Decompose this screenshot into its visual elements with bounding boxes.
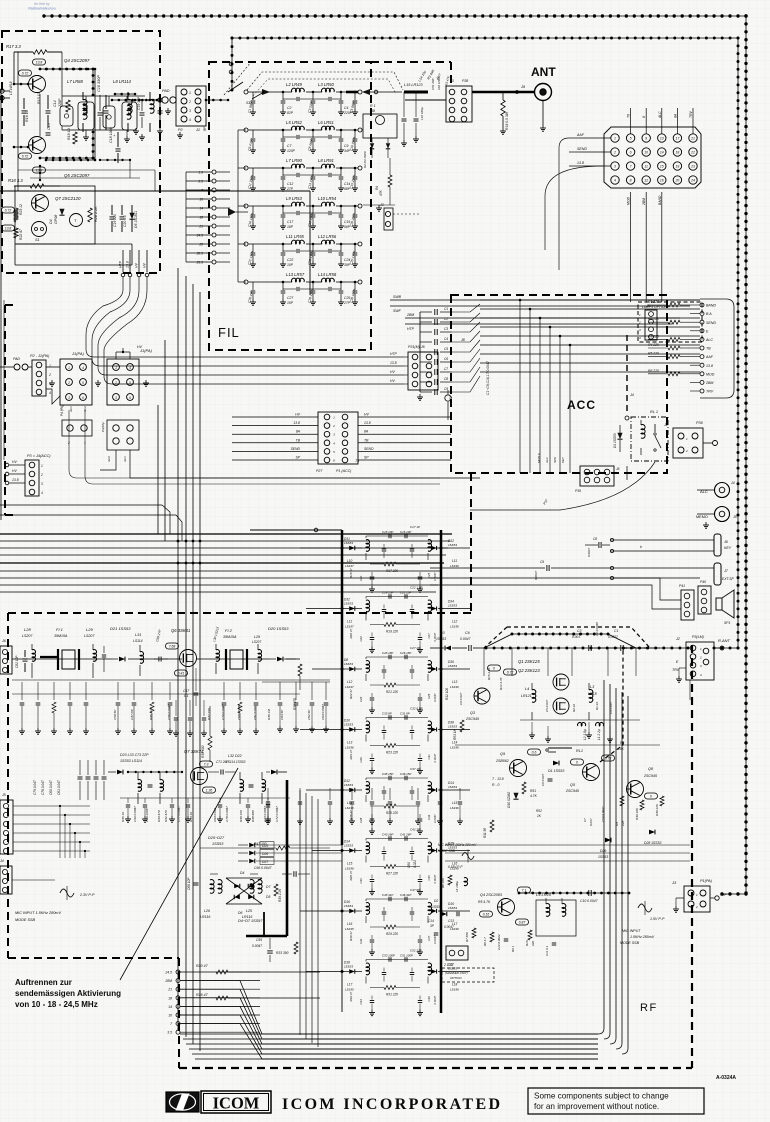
IF filter row 6 (L20 LS195): [349, 848, 355, 852]
svg-text:5: 5: [82, 381, 84, 385]
bead segment to output circle: [135, 99, 157, 101]
FI2 crystal filter block: [230, 650, 243, 669]
svg-text:C77 0.0047: C77 0.0047: [177, 806, 181, 822]
svg-text:0.0047: 0.0047: [433, 754, 437, 763]
svg-text:b: b: [640, 545, 642, 549]
svg-text:Some components subject to cha: Some components subject to change: [534, 1092, 669, 1101]
svg-text:R11 56: R11 56: [483, 828, 487, 838]
svg-text:EXT.SP: EXT.SP: [722, 577, 734, 581]
svg-text:C37: C37: [427, 935, 431, 941]
svg-text:C38 15P: C38 15P: [382, 772, 393, 776]
svg-text:R30 47: R30 47: [349, 931, 353, 941]
svg-text:P3(LM): P3(LM): [692, 635, 704, 639]
svg-text:Q6 3SK81: Q6 3SK81: [171, 628, 190, 633]
left-side row stubs: [300, 547, 342, 549]
svg-text:LS196: LS196: [450, 625, 459, 629]
P27 wire row SEND: [232, 450, 318, 452]
svg-text:L2 LR49: L2 LR49: [286, 82, 303, 87]
MEMO jack J5: [715, 507, 730, 522]
svg-text:P27: P27: [316, 469, 323, 473]
svg-text:LS207: LS207: [22, 634, 33, 638]
svg-text:C41 26P: C41 26P: [400, 833, 411, 837]
svg-text:R36 1M: R36 1M: [267, 709, 271, 720]
svg-text:J4: J4: [730, 481, 735, 485]
svg-text:D20 1SS53: D20 1SS53: [268, 626, 289, 631]
svg-text:0.001: 0.001: [572, 635, 580, 639]
svg-text:C51 20P: C51 20P: [431, 78, 435, 90]
svg-text:C3: C3: [577, 629, 581, 633]
svg-text:R37 150: R37 150: [207, 708, 211, 720]
grid left curve big: [545, 166, 603, 250]
cap bank common rail: [419, 312, 421, 392]
svg-text:0.022: 0.022: [413, 860, 417, 868]
svg-text:1SS53: 1SS53: [448, 785, 457, 789]
MAIN unit dashed box bottom edge: [8, 957, 179, 959]
svg-text:2SC945: 2SC945: [565, 789, 579, 793]
svg-text:C2: C2: [287, 106, 291, 110]
svg-text:D2: D2: [434, 899, 438, 903]
svg-text:L13: L13: [452, 680, 458, 684]
svg-text:L29: L29: [254, 635, 260, 639]
J4 connector circle: [625, 416, 629, 420]
L31 coil: [140, 652, 143, 664]
svg-text:L2 1.8µ: L2 1.8µ: [583, 729, 587, 740]
D3 diode on T/R line: [445, 646, 451, 651]
FIL row1 output bold segment: [346, 91, 358, 94]
wire Q4 collector bead path: [46, 68, 95, 70]
svg-text:AC2: AC2: [107, 456, 111, 463]
svg-text:L15 LR123: L15 LR123: [404, 83, 423, 87]
svg-text:Q1 2SK125: Q1 2SK125: [518, 659, 540, 664]
wire inner R.ANT bus (beaded, top): [232, 37, 738, 39]
svg-text:4.7K: 4.7K: [530, 794, 538, 798]
svg-text:L17: L17: [347, 983, 353, 987]
svg-text:D25: D25: [262, 844, 268, 848]
ACC vertical drops: [519, 300, 521, 473]
svg-text:8A: 8A: [673, 113, 677, 118]
RL1 coil: [641, 425, 645, 439]
svg-text:3: 3: [115, 396, 117, 400]
svg-text:FI 1: FI 1: [56, 627, 63, 632]
svg-text:15: 15: [660, 165, 664, 169]
ICOM boxed wordmark: [201, 1091, 271, 1113]
Q8 2SC945: [627, 781, 644, 798]
bead stub Q4 base: [14, 83, 28, 85]
band column bus to left: [185, 172, 187, 262]
wire outer antenna bus (beaded, to P1(PA)): [722, 893, 746, 895]
svg-text:C1: C1: [444, 307, 448, 311]
IF filter row 7 (L22 LS195): [349, 909, 355, 913]
svg-text:D3: D3: [440, 631, 445, 635]
svg-text:J3: J3: [671, 880, 677, 885]
front-end resistors row: [52, 702, 56, 713]
svg-text:5: 5: [129, 381, 131, 385]
svg-text:R2 22: R2 22: [572, 704, 576, 712]
TX out beaded line: [519, 892, 629, 894]
svg-text:R31 220: R31 220: [386, 993, 398, 997]
svg-text:P4(PA): P4(PA): [101, 423, 105, 432]
svg-text:2: 2: [699, 656, 702, 660]
svg-text:Q8: Q8: [648, 767, 654, 771]
svg-text:C34: C34: [359, 999, 363, 1005]
svg-text:13.8: 13.8: [706, 364, 713, 368]
PA unit dashed left edge: [4, 305, 6, 515]
arrow into band column: [228, 208, 236, 216]
connector J5 left edge: [0, 800, 13, 854]
svg-text:for free by: for free by: [34, 2, 50, 6]
connector P38: [446, 86, 472, 122]
svg-text:3: 3: [614, 165, 616, 169]
Q3 2SC945: [474, 688, 490, 704]
IF filter row 3 (L16 LS197): [349, 667, 355, 671]
mic input sine left: [60, 889, 74, 897]
bead loop Q5 collector: [40, 157, 93, 159]
dashed link ACC to MAIN: [470, 473, 472, 614]
svg-text:von 10 - 18 - 24,5 MHz: von 10 - 18 - 24,5 MHz: [15, 1000, 98, 1009]
svg-text:4: 4: [41, 491, 43, 495]
svg-text:4: 4: [189, 118, 191, 122]
D1 1SS53 TX: [553, 761, 559, 766]
grid wires left (AAF SEND 13.8): [579, 137, 611, 139]
svg-text:C53 100P: C53 100P: [382, 954, 395, 958]
svg-text:L10: L10: [347, 559, 353, 563]
FIL band-pass row 5: inductors L11 LR55 L12 LR56: [244, 242, 248, 246]
IF filter row 1 (L10 LS197): [349, 546, 355, 550]
wire connector to grid A: [46, 366, 60, 368]
svg-text:C46 41P: C46 41P: [400, 893, 411, 897]
svg-text:C42 2P: C42 2P: [410, 828, 420, 832]
svg-text:TB: TB: [364, 438, 369, 442]
svg-text:R - 0: R - 0: [492, 783, 499, 787]
D22 diode: [271, 770, 277, 775]
svg-text:L12 LR56: L12 LR56: [318, 234, 337, 239]
svg-text:C27: C27: [287, 296, 293, 300]
svg-text:MIC INPUT 1.5KHz 280mV: MIC INPUT 1.5KHz 280mV: [15, 911, 61, 915]
band bus joining lines: [181, 981, 598, 1034]
svg-text:C79 0.047: C79 0.047: [33, 780, 37, 795]
svg-text:R18 47: R18 47: [349, 568, 353, 578]
svg-text:D5 15CB11: D5 15CB11: [134, 211, 138, 228]
svg-text:C37 1P: C37 1P: [410, 767, 420, 771]
svg-text:C32 0.5P: C32 0.5P: [410, 707, 423, 711]
connector J4 left edge: [0, 866, 12, 894]
svg-text:21: 21: [167, 988, 172, 992]
svg-text:for an improvement without not: for an improvement without notice.: [534, 1102, 659, 1111]
svg-text:47K: 47K: [379, 189, 383, 196]
svg-text:R9 1: R9 1: [511, 945, 515, 952]
svg-text:T8: T8: [355, 459, 359, 463]
svg-text:C9: C9: [444, 387, 448, 391]
svg-text:39M15A: 39M15A: [54, 634, 68, 638]
svg-text:C61 0.047: C61 0.047: [57, 780, 61, 795]
svg-text:D4: D4: [240, 871, 244, 875]
svg-text:5: 5: [630, 137, 632, 141]
svg-text:MODE SSB: MODE SSB: [438, 849, 456, 853]
svg-text:BAND: BAND: [658, 195, 662, 205]
svg-text:1SS53 LS114: 1SS53 LS114: [120, 759, 142, 763]
svg-text:L14 LR58: L14 LR58: [318, 272, 337, 277]
svg-text:HV: HV: [12, 460, 17, 464]
svg-text:C24: C24: [359, 696, 363, 702]
Q6 bias cluster stubs: [175, 700, 177, 716]
svg-text:ACC: ACC: [567, 398, 596, 412]
svg-text:7: 7: [170, 1022, 172, 1026]
svg-text:C99 0.0047: C99 0.0047: [133, 806, 137, 822]
svg-text:L1 2.2µ: L1 2.2µ: [597, 729, 601, 740]
svg-text:0.0022: 0.0022: [608, 635, 618, 639]
svg-text:R42 47K: R42 47K: [164, 809, 168, 822]
HV distribution wires from PA box to P31(M): [86, 277, 404, 357]
svg-text:AAF: AAF: [705, 355, 714, 359]
bottom horizontal bus group: [180, 1033, 598, 1035]
svg-text:C19 220: C19 220: [113, 214, 117, 227]
long verticals mid-left: [157, 405, 159, 534]
FI1 crystal filter block: [62, 650, 75, 669]
svg-text:HV: HV: [137, 345, 143, 349]
svg-text:C3: C3: [444, 327, 448, 331]
connector P40: [698, 586, 711, 614]
svg-text:J4: J4: [629, 393, 634, 397]
front-end horizontal rail 2: [12, 693, 300, 695]
svg-text:8: 8: [630, 179, 632, 183]
RF unit dashed right edge: [691, 645, 693, 1068]
svg-text:C19 39P: C19 39P: [137, 96, 141, 110]
capacitor C9 0.0047: [546, 565, 548, 571]
wire Q5 collector bead path: [46, 159, 95, 161]
svg-text:R52: R52: [536, 809, 542, 813]
svg-text:C30: C30: [359, 878, 363, 884]
svg-text:P38: P38: [462, 79, 468, 83]
Q5 2SC945 TX: [583, 764, 600, 781]
wire outer antenna bus (beaded, right edge): [745, 16, 747, 893]
svg-text:L11 LR55: L11 LR55: [286, 234, 305, 239]
svg-text:R20 47: R20 47: [349, 628, 353, 638]
svg-text:C19 15P: C19 15P: [382, 591, 393, 595]
RL1 contacts: [654, 424, 656, 432]
detector ground rail: [363, 204, 395, 206]
svg-text:C4: C4: [444, 337, 448, 341]
ACC bus rows: [480, 299, 700, 301]
svg-text:R20 47: R20 47: [196, 964, 209, 968]
svg-text:HV: HV: [390, 370, 395, 374]
svg-text:Auftrennen zur: Auftrennen zur: [15, 978, 72, 987]
left edge wires into MAIN: [13, 805, 90, 807]
svg-text:KEY: KEY: [561, 456, 565, 463]
R.ANT stub circle: [720, 646, 724, 650]
svg-text:1: 1: [614, 137, 616, 141]
svg-text:D27: D27: [262, 860, 268, 864]
svg-text:MOD: MOD: [706, 372, 715, 376]
bold IF route horizontal: [246, 935, 287, 938]
svg-text:Q5: Q5: [570, 783, 576, 787]
svg-text:MODE SSB: MODE SSB: [620, 941, 640, 945]
svg-text:LS196: LS196: [345, 867, 354, 871]
FIL band-pass row 6: inductors L13 LR57 L14 LR58: [244, 280, 248, 284]
bus junction dots: [177, 540, 180, 543]
2BM HTP lines: [405, 317, 680, 319]
svg-text:HV: HV: [135, 262, 139, 268]
pin 13.8: [129, 250, 131, 272]
ground L8 area: [126, 136, 128, 139]
svg-text:HTP: HTP: [119, 260, 123, 268]
svg-text:AAF: AAF: [576, 133, 585, 137]
svg-text:0: 0: [576, 761, 578, 765]
mixer tuned circuits: [138, 780, 141, 792]
svg-text:D7: D7: [266, 885, 270, 889]
svg-text:HV: HV: [364, 413, 369, 417]
svg-text:C64 0.0047: C64 0.0047: [321, 704, 325, 720]
FIL output arrow to L15: [362, 89, 370, 95]
svg-text:0.0047: 0.0047: [433, 572, 437, 581]
svg-text:13.8: 13.8: [36, 169, 43, 173]
wire J2 to stub: [703, 442, 712, 444]
ACC junction dots: [519, 299, 522, 302]
band select circles column: [176, 970, 180, 974]
Q7 stage solid outline box: [15, 186, 95, 244]
EXT SP wires: [610, 567, 714, 569]
RF unit dashed left edge: [178, 958, 180, 1068]
svg-text:L14: L14: [347, 801, 353, 805]
mixer bottom rail: [120, 797, 290, 799]
svg-text:C67: C67: [183, 689, 189, 693]
svg-text:7: 7: [630, 165, 632, 169]
left feeder wires above bus: [0, 504, 162, 506]
IF column top entry wires: [250, 529, 342, 531]
svg-text:MODE SSB: MODE SSB: [15, 918, 36, 922]
svg-text:13.8: 13.8: [364, 421, 371, 425]
svg-text:C32: C32: [359, 938, 363, 944]
svg-text:R49 10K: R49 10K: [635, 807, 639, 820]
svg-text:220: 220: [531, 941, 535, 947]
svg-text:OPTION: OPTION: [450, 976, 462, 980]
svg-text:L11: L11: [347, 620, 352, 624]
svg-text:R15 2.2K: R15 2.2K: [487, 666, 491, 680]
svg-text:J6: J6: [723, 540, 728, 544]
svg-text:R28 2.2K: R28 2.2K: [94, 206, 98, 222]
L29 trim cap: [102, 654, 106, 656]
svg-text:L7 LR88: L7 LR88: [67, 79, 84, 84]
svg-text:3.5: 3.5: [167, 1031, 172, 1035]
svg-text:SP: SP: [295, 456, 300, 460]
svg-text:8A: 8A: [296, 430, 301, 434]
svg-text:0.73: 0.73: [605, 757, 612, 761]
FIL band-pass row 3: inductors L7 LR90 L8 LR91: [244, 166, 248, 170]
wire bead path into P2: [112, 99, 160, 101]
svg-text:R4 220: R4 220: [648, 343, 659, 347]
svg-text:J2: J2: [663, 423, 669, 427]
svg-text:T - 13.8: T - 13.8: [492, 777, 504, 781]
resistor R18 0.5 3W: [501, 100, 505, 116]
oval 0.72 left edge: [2, 207, 15, 213]
wire inner R.ANT bus (beaded, right): [737, 38, 739, 648]
svg-text:18: 18: [168, 996, 172, 1000]
svg-text:11: 11: [644, 165, 648, 169]
svg-text:P39: P39: [575, 489, 581, 493]
svg-text:SEND: SEND: [577, 147, 587, 151]
svg-text:AC1: AC1: [123, 456, 127, 463]
pin HV: [138, 250, 140, 272]
svg-text:C6 0.047: C6 0.047: [541, 773, 545, 786]
L28 coil: [32, 650, 35, 662]
transformer L25 LR116: [250, 880, 254, 894]
svg-text:R48 680: R48 680: [251, 810, 255, 822]
R26 56 resistor: [14, 210, 18, 222]
svg-text:C47 RP: C47 RP: [130, 708, 134, 720]
svg-text:L9 LR53: L9 LR53: [286, 196, 303, 201]
svg-text:LS207: LS207: [84, 634, 95, 638]
ground rail under Q7 stage: [16, 243, 132, 245]
svg-text:2BM: 2BM: [705, 381, 713, 385]
svg-text:C81 0.001: C81 0.001: [253, 705, 257, 720]
svg-text:S1: S1: [35, 238, 40, 242]
S1 wafer dotted link: [252, 92, 264, 99]
MAIN unit dashed box left edge: [7, 613, 9, 958]
PA driver unit dashed box: [2, 31, 160, 273]
svg-text:14: 14: [660, 151, 664, 155]
diode cross D4-D7: [226, 878, 262, 904]
inductor L15 LR123 (right of FIL): [404, 91, 428, 94]
SWB SWF lines from FIL: [390, 299, 700, 301]
wire bead path from J1 into FIL: [206, 99, 228, 101]
svg-text:C78 0.0047: C78 0.0047: [225, 806, 229, 822]
svg-text:C27 2P: C27 2P: [410, 646, 420, 650]
svg-text:0: 0: [650, 795, 652, 799]
svg-text:2.3V P-P: 2.3V P-P: [79, 893, 95, 897]
ground under L8: [135, 128, 137, 131]
svg-text:D30 XZ062: D30 XZ062: [507, 792, 511, 808]
svg-text:C51 100P: C51 100P: [400, 954, 413, 958]
bold L25 feed: [263, 912, 265, 936]
svg-text:2: 2: [685, 449, 688, 453]
svg-text:P2 - J1(PA): P2 - J1(PA): [30, 354, 50, 358]
svg-text:16: 16: [660, 179, 664, 183]
svg-text:2: 2: [638, 321, 641, 325]
svg-text:0.72: 0.72: [22, 155, 29, 159]
C32 1N60 caps: [402, 118, 407, 120]
thick antenna feed wire: [472, 91, 534, 93]
svg-text:R30 22K: R30 22K: [655, 803, 659, 816]
svg-text:R24 47: R24 47: [349, 749, 353, 759]
front-end second row wires: [12, 679, 330, 681]
svg-text:C5: C5: [444, 347, 448, 351]
svg-text:R29 220: R29 220: [386, 932, 398, 936]
ground stubs near P2: [167, 108, 169, 111]
svg-text:R40 150: R40 150: [239, 810, 243, 822]
P27 wire row TB: [232, 442, 318, 444]
box1 extra wires: [18, 169, 155, 171]
svg-text:14: 14: [168, 1005, 172, 1009]
band bus vertical inside FIL: [237, 130, 239, 282]
svg-text:24.5: 24.5: [164, 971, 172, 975]
P27 wire row SP: [232, 459, 318, 461]
svg-text:1SS53: 1SS53: [448, 604, 457, 608]
svg-text:29.5: 29.5: [196, 261, 204, 265]
diode D1 1SS53 at RL1: [617, 433, 622, 439]
capacitor C13: [22, 110, 27, 112]
svg-text:C18 10P: C18 10P: [382, 530, 393, 534]
svg-text:C4: C4: [344, 106, 348, 110]
svg-text:LR116: LR116: [242, 915, 252, 919]
svg-text:C14: C14: [53, 100, 57, 107]
svg-text:LS196: LS196: [345, 746, 354, 750]
ground J3: [675, 906, 677, 909]
svg-text:C22: C22: [287, 258, 293, 262]
L29b coil: [258, 650, 261, 662]
svg-text:L6 LR51: L6 LR51: [318, 120, 334, 125]
svg-text:T6: T6: [627, 114, 631, 118]
TX sine right: [638, 904, 652, 912]
resonator box 2 with coil: [78, 102, 94, 130]
